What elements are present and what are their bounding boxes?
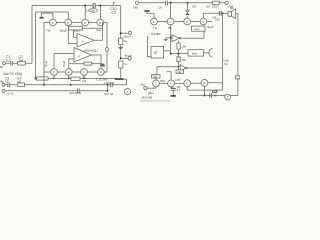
svg-text:Вщ2: Вщ2	[62, 60, 66, 66]
ground (under C2)	[186, 13, 189, 15]
svg-text:2,2: 2,2	[6, 59, 11, 63]
pin 5 (bottom)	[51, 69, 58, 76]
capacitor C3 (electrolytic, speaker line)	[219, 11, 221, 16]
pin 8 (bottom)	[98, 69, 105, 76]
capacitor C3	[8, 83, 10, 88]
svg-text:ЩП: ЩП	[213, 90, 218, 94]
capacitor C16 (row2 right)	[110, 83, 112, 88]
capacitor C1 (fig2 top)	[166, 1, 168, 6]
wire op2 feedback right	[92, 63, 102, 65]
resistor R4 (top rail)	[213, 1, 220, 4]
loudspeaker BA1	[228, 11, 232, 16]
input terminal X3	[2, 89, 5, 92]
svg-text:ВыхБ: ВыхБ	[125, 53, 132, 57]
wire input row1	[6, 62, 33, 64]
svg-text:ПО: ПО	[224, 62, 228, 66]
svg-text:100: 100	[215, 17, 220, 21]
node junction top rail at x100.4	[99, 5, 101, 7]
wire op1 output up to pin4	[94, 23, 103, 41]
svg-text:1н: 1н	[214, 93, 218, 97]
capacitor C9 value oval	[89, 9, 98, 13]
wire row2 end up to ground bar	[113, 79, 127, 85]
svg-text:КР140УД1: КР140УД1	[85, 48, 99, 52]
wire pin D down	[204, 86, 206, 95]
node junction x44 row2	[43, 84, 45, 86]
wire left feedback rail x32	[31, 6, 33, 64]
svg-text:1к: 1к	[124, 39, 128, 43]
svg-text:СЖ6 2Ж: СЖ6 2Ж	[104, 81, 115, 85]
wire junction to amp1	[166, 37, 172, 39]
wire R8 down to ground bar	[120, 68, 122, 78]
svg-text:СА: СА	[158, 5, 162, 9]
wire bottom pin row links	[159, 82, 222, 85]
pin 1 (top)	[50, 19, 57, 26]
svg-text:ВщО: ВщО	[60, 29, 67, 33]
svg-text:ВУ: ВУ	[207, 5, 211, 9]
svg-text:1к0: 1к0	[17, 80, 22, 84]
svg-text:100: 100	[90, 9, 95, 13]
svg-text:С15 2Ж0: С15 2Ж0	[97, 77, 108, 81]
block small box (bottom rail fig2)	[213, 90, 217, 93]
svg-text:ЦЕ: ЦЕ	[178, 70, 182, 74]
ground (amp1 input)	[165, 38, 167, 39]
supply terminal (left)	[135, 1, 138, 4]
svg-text:КЩ: КЩ	[101, 63, 106, 67]
supply terminal +9V	[225, 1, 228, 4]
node junction x178.5 y66.7	[178, 66, 180, 68]
wire pin4 down to box	[203, 25, 205, 26]
pin circle 3	[184, 18, 191, 25]
svg-text:вых: вых	[97, 28, 102, 32]
wire right rail x120.7	[120, 6, 122, 59]
node junction x35.6 bottom rail	[35, 77, 37, 79]
svg-text:вых: вых	[195, 27, 200, 31]
svg-text:СИ: СИ	[192, 5, 196, 9]
wire inner rail x35.6 to pin2	[36, 12, 69, 78]
svg-text:АЛУ: АЛУ	[175, 78, 180, 82]
ground (under C5)	[171, 95, 176, 97]
wire box row to pin B	[167, 72, 172, 80]
wire input row2	[5, 84, 110, 86]
pin circle 4	[200, 18, 207, 25]
wire pin C down and right y90.1	[187, 87, 222, 90]
wire op2 output down to pin8	[92, 55, 102, 69]
pin circle B	[168, 80, 175, 87]
resistor R (divider top)	[178, 41, 180, 67]
input terminal X2	[2, 83, 5, 86]
svg-text:СЖ: СЖ	[82, 79, 87, 83]
svg-text:ДЕ 1: ДЕ 1	[148, 91, 155, 95]
wire amp2 out to right rail	[187, 67, 222, 69]
pin 7 (bottom)	[81, 69, 88, 76]
wire to output A terminal	[121, 32, 129, 34]
svg-text:Пвд: Пвд	[140, 83, 145, 87]
svg-text:ДА: ДА	[230, 6, 234, 10]
capacitor C5 (electrolytic to ground)	[171, 87, 173, 89]
output terminal ВыхА	[128, 31, 131, 34]
node junction x68.8 bottom rail	[68, 78, 70, 80]
svg-text:1,2: 1,2	[5, 80, 9, 84]
node junction x170.7 top	[170, 2, 172, 4]
wire terminal to pin A	[147, 87, 156, 88]
svg-text:УВ 3÷9В: УВ 3÷9В	[141, 96, 152, 100]
wire pin4 stub up	[99, 6, 101, 20]
block matching (box2)	[188, 50, 204, 57]
op-amp DA1 package outline	[44, 23, 107, 73]
svg-text:10к: 10к	[182, 58, 187, 62]
wire left rail to box row	[156, 67, 158, 75]
block Q (above bottom pins right)	[176, 70, 184, 74]
node junction top rail at x85.2	[84, 5, 86, 7]
output terminal ВыхБ	[128, 57, 131, 60]
svg-text:10к: 10к	[182, 45, 187, 49]
wire pin3 stub up	[186, 16, 188, 18]
pin circle 2	[167, 18, 174, 25]
wire top rail fig2	[139, 2, 225, 4]
wire input row3	[5, 90, 108, 92]
node junction x54 bottom rail	[53, 78, 54, 79]
resistor R9 (bottom rail)	[71, 77, 80, 80]
block generator (box1)	[151, 47, 164, 59]
capacitor C1	[11, 61, 13, 66]
ground (below R7)	[120, 45, 122, 47]
op-amp U1B triangle	[74, 48, 92, 63]
node junction ВыхА	[120, 32, 122, 34]
node junction x178.5 y53.6	[178, 53, 180, 55]
node junction x222.4 speaker line	[222, 12, 224, 14]
resistor R3	[18, 83, 25, 87]
wire pin7 stub down	[83, 75, 85, 78]
wire to output B terminal	[121, 57, 128, 59]
svg-text:ВыхА: ВыхА	[124, 34, 131, 38]
wire link rows2-3	[107, 85, 109, 91]
pin circle D	[201, 79, 208, 86]
wire junction down to block Q	[178, 67, 180, 70]
pin 9 (right side)	[105, 48, 109, 52]
node junction x84 bottom rail	[83, 78, 85, 80]
node junction amp1 input	[170, 37, 172, 39]
earphone arc	[209, 48, 213, 57]
wire pin6 up to op2 inverting input	[69, 59, 74, 69]
wire top pin row links	[157, 21, 211, 23]
svg-text:4,7: 4,7	[177, 88, 181, 92]
svg-text:1М: 1М	[19, 59, 24, 63]
wire pin6 stub down	[68, 75, 70, 78]
svg-text:0,5: 0,5	[112, 10, 117, 14]
resistor R6 (bottom rail left)	[37, 77, 49, 80]
svg-text:С2б 220М: С2б 220М	[69, 91, 81, 95]
svg-text:ВщС: ВщС	[73, 29, 80, 33]
node junction ВыхБ	[120, 57, 122, 59]
wire amp1 out to output box	[181, 31, 204, 38]
resistor R7	[119, 38, 123, 45]
svg-text:100,0: 100,0	[212, 5, 219, 9]
svg-text:ВЩ: ВЩ	[161, 79, 166, 83]
svg-text:Пит: Пит	[46, 29, 52, 33]
resistor R (divider bottom)	[177, 57, 180, 62]
ground (pin1 fig2)	[147, 12, 154, 18]
svg-text:1к: 1к	[124, 62, 128, 66]
figure marker 2	[225, 94, 231, 100]
svg-text:ВА: ВА	[168, 26, 172, 30]
resistor R8	[119, 61, 123, 68]
svg-text:ВЫ: ВЫ	[153, 75, 158, 79]
pin 3 (top)	[82, 19, 89, 26]
block output stage (box under pin4)	[192, 26, 206, 31]
pin 2 (top)	[65, 19, 72, 26]
wire box1 out to divider	[164, 50, 171, 52]
svg-text:АЛ4ВЗ: АЛ4ВЗ	[151, 32, 161, 36]
node junction x107.5 row2	[107, 84, 109, 86]
wire speaker return (right rail down)	[236, 14, 238, 96]
wire R5 to noninv input	[74, 30, 78, 37]
svg-text:Пв: Пв	[154, 26, 158, 30]
wire left rail fig2	[147, 36, 151, 57]
svg-text:ВыП: ВыП	[208, 25, 214, 29]
svg-text:Пвх: Пвх	[133, 5, 138, 9]
battery terminal (bottom left fig2)	[144, 87, 147, 90]
wire bottom rail fig2 y95.4	[189, 94, 238, 96]
resistor R5 (feedback, op1)	[69, 26, 83, 30]
resistor R1	[18, 61, 26, 65]
svg-text:вых: вых	[192, 52, 198, 56]
pin 6 (bottom)	[65, 69, 72, 76]
capacitor C10 stub	[113, 3, 115, 6]
pin circle C	[184, 80, 191, 87]
resistor R6 (op2 feedback)	[84, 62, 92, 65]
wire divider row y53.6	[171, 53, 188, 55]
wire op2 feedback left	[69, 63, 84, 65]
wire bottom rail y78.4	[36, 77, 115, 79]
wire top rail y5.5	[32, 5, 121, 7]
block P (above bottom pins)	[152, 75, 161, 79]
figure marker 1	[124, 89, 130, 95]
wire pin3 stub up	[84, 6, 86, 20]
capacitor C17	[77, 88, 79, 93]
op-amp U1A triangle	[77, 34, 94, 48]
node junction x70.7 row2	[70, 84, 72, 86]
wire pin5 stub down	[53, 75, 55, 78]
wire R5 right to output leg	[83, 27, 103, 29]
svg-text:Вх: Вх	[0, 65, 4, 69]
input terminal X1	[3, 62, 6, 65]
capacitor C2 (to ground)	[187, 3, 189, 10]
wire pin4 up and right to cap	[204, 13, 220, 18]
node junction x170.7 y53.6	[170, 53, 172, 55]
capacitor C9 (in top rail)	[93, 3, 95, 8]
amplifier A1 (inverter triangle)	[172, 35, 179, 42]
resistor (inline, right rail)	[235, 76, 239, 79]
wire pin5 up to op2 noninv input	[54, 54, 74, 69]
wire divider to left rail	[157, 66, 179, 68]
node junction x187.5 top	[187, 2, 189, 4]
svg-text:ЗГ: ЗГ	[154, 51, 158, 55]
wire caption underline	[140, 100, 170, 102]
pin circle A (fig2 bottom row)	[153, 80, 160, 87]
svg-text:Вщ1: Вщ1	[44, 60, 48, 66]
wire DA1 left edge down to row2	[43, 72, 45, 85]
node junction x203 y95.4	[204, 94, 206, 96]
svg-text:С12 1Ж: С12 1Ж	[104, 92, 114, 96]
wire pin2 down (x170.5)	[170, 25, 172, 54]
wire pin A stub up	[155, 78, 157, 80]
pin 4 (top)	[97, 19, 104, 26]
svg-text:1÷7к: 1÷7к	[8, 92, 15, 96]
capacitor C6 (on bottom rail)	[210, 93, 212, 98]
wire pin2 down to op1 inverting input	[68, 26, 77, 44]
wire box2 to earphone	[204, 52, 210, 54]
svg-text:1: 1	[126, 90, 128, 94]
pin circle 1 (fig2 top row)	[151, 18, 158, 25]
svg-text:2: 2	[227, 96, 229, 100]
node junction x107.5 row3	[107, 90, 109, 92]
ground (top-left near pin1)	[42, 13, 53, 19]
wire right inner rail x222.4	[221, 13, 223, 90]
wire cap to speaker	[222, 12, 228, 14]
wire pin2 up to rail	[170, 3, 172, 18]
ground bar (bottom rail end)	[115, 78, 124, 80]
svg-text:Зап 7/1 УВЩ: Зап 7/1 УВЩ	[3, 72, 22, 76]
amplifier A2 (inverter triangle)	[180, 65, 186, 72]
